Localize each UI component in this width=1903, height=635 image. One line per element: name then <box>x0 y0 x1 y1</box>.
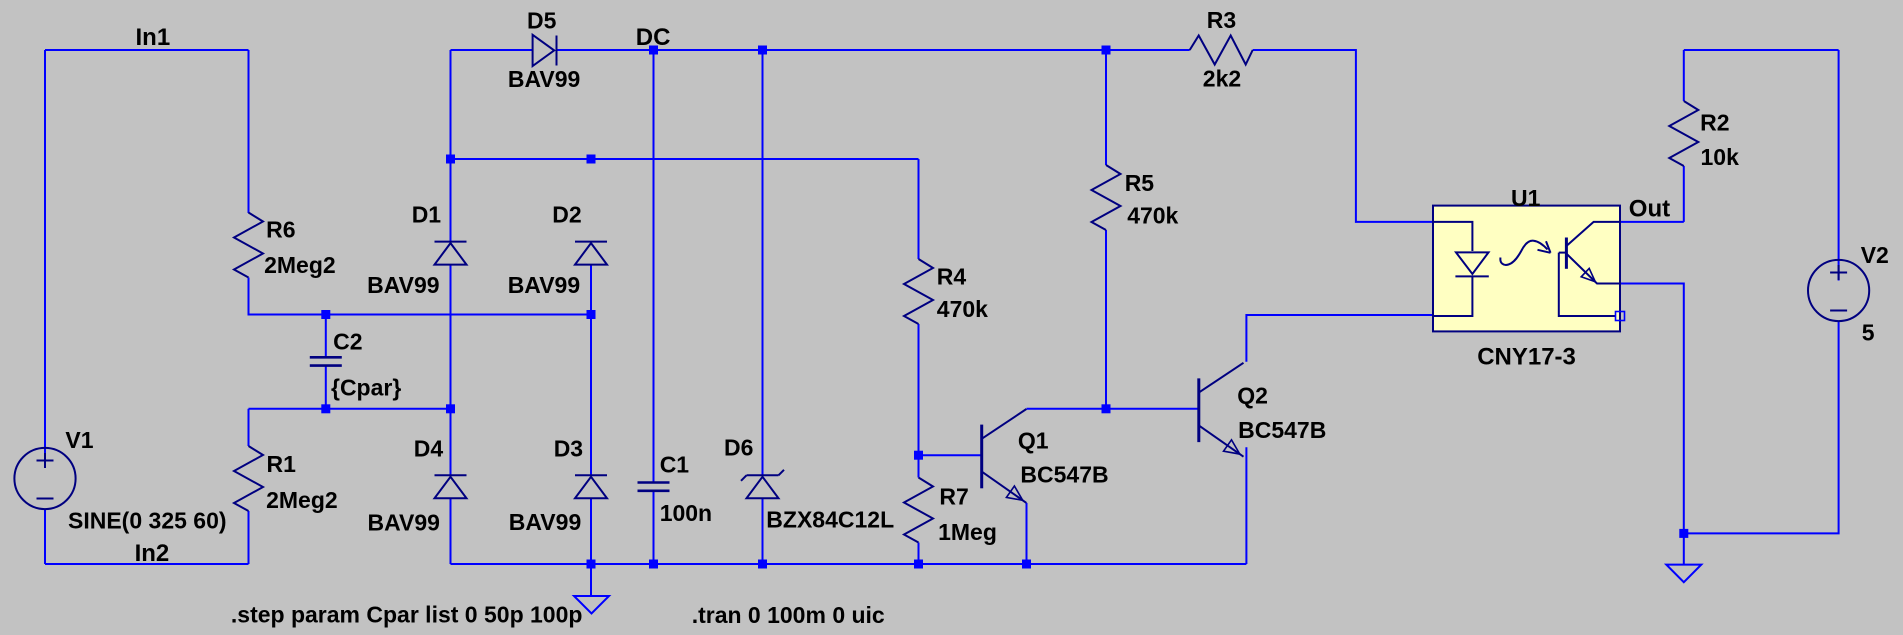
transistor Q1 symbol <box>982 409 1027 503</box>
svg-text:.tran 0 100m 0 uic: .tran 0 100m 0 uic <box>692 602 885 628</box>
svg-text:BAV99: BAV99 <box>508 272 580 298</box>
svg-text:V1: V1 <box>65 427 93 453</box>
svg-text:R7: R7 <box>939 484 968 510</box>
svg-text:R6: R6 <box>266 216 295 242</box>
U1 phototransistor <box>1559 222 1620 316</box>
wire R2 to V2 top rail <box>1684 49 1839 51</box>
junction DC at C1 <box>649 46 658 55</box>
wire D4 bottom lead <box>450 498 452 564</box>
wire D5 branch vertical <box>450 50 452 242</box>
wire Q2 collector to U1 cathode <box>1246 315 1433 362</box>
svg-text:100n: 100n <box>660 500 712 526</box>
svg-text:BC547B: BC547B <box>1020 462 1108 488</box>
svg-text:470k: 470k <box>1127 203 1178 229</box>
svg-text:1Meg: 1Meg <box>938 519 997 545</box>
svg-text:D6: D6 <box>724 435 753 461</box>
wire R1 bottom to In2 rail <box>248 511 250 564</box>
wire R2 bottom lead <box>1683 166 1685 222</box>
svg-text:SINE(0 325 60): SINE(0 325 60) <box>68 508 227 534</box>
wire Q2 emitter down <box>1245 447 1247 564</box>
wire In2 bottom rail <box>45 563 249 565</box>
wire C2 top lead <box>325 315 327 358</box>
svg-text:BAV99: BAV99 <box>509 509 581 535</box>
diode D3 body <box>575 475 607 498</box>
wire R7 bottom lead <box>918 543 920 565</box>
junction C2 bottom <box>321 404 330 413</box>
wire R3 right to U1 <box>1253 50 1433 222</box>
wire DC top rail <box>557 49 1190 51</box>
svg-text:In2: In2 <box>135 540 170 567</box>
wire R2 top lead <box>1683 50 1685 101</box>
svg-text:D4: D4 <box>414 435 444 461</box>
svg-text:BC547B: BC547B <box>1238 417 1326 443</box>
junction rail at C1 <box>649 560 658 569</box>
svg-text:BAV99: BAV99 <box>367 272 439 298</box>
junction DC at R5 <box>1102 46 1111 55</box>
svg-text:C2: C2 <box>333 329 362 355</box>
diode D1 body <box>435 242 467 265</box>
resistor R6 body <box>234 213 263 278</box>
junction rail at R7 <box>914 560 923 569</box>
svg-text:Q1: Q1 <box>1018 428 1049 454</box>
wire R5 bottom lead <box>1105 230 1107 409</box>
diode D5 body <box>533 35 557 66</box>
diode D4 body <box>435 475 467 498</box>
svg-text:DC: DC <box>636 24 671 51</box>
wire R4 top lead <box>918 159 920 259</box>
wire R7 top lead <box>918 455 920 477</box>
svg-text:D1: D1 <box>412 201 442 227</box>
wire D2 cathode to D3 <box>590 265 592 476</box>
resistor R3 body <box>1190 36 1253 65</box>
wire D6 top lead <box>762 50 764 475</box>
svg-text:{Cpar}: {Cpar} <box>331 374 401 400</box>
svg-text:C1: C1 <box>660 451 690 477</box>
svg-text:Q2: Q2 <box>1237 382 1268 408</box>
svg-text:D5: D5 <box>527 7 557 33</box>
svg-text:BAV99: BAV99 <box>368 510 440 536</box>
voltage source V1 symbol <box>14 448 75 509</box>
junction rail at Q1 emitter <box>1022 560 1031 569</box>
junction C2 top <box>321 310 330 319</box>
svg-text:2k2: 2k2 <box>1203 66 1241 92</box>
wire ground1 stem <box>590 564 592 596</box>
wire Q1 emitter down <box>1026 503 1028 564</box>
junction D4 bridge mid <box>446 404 455 413</box>
resistor R1 body <box>234 446 263 511</box>
svg-text:.step param Cpar list 0 50p 10: .step param Cpar list 0 50p 100p <box>231 602 583 628</box>
junction DC at D6 <box>758 46 767 55</box>
U1 LED <box>1433 222 1489 316</box>
junction R5-Q1-Q2 <box>1102 404 1111 413</box>
U1 base pin marker <box>1616 312 1625 321</box>
svg-text:R5: R5 <box>1125 170 1155 196</box>
wire V2 top lead <box>1838 50 1840 281</box>
wire AC1 rail <box>249 408 451 410</box>
wire U1 collector to Out <box>1620 221 1684 223</box>
wire U1 emitter down <box>1620 284 1684 534</box>
svg-text:D3: D3 <box>554 435 583 461</box>
ground symbol 2 <box>1666 565 1701 583</box>
svg-text:R3: R3 <box>1207 7 1236 33</box>
wire R1 top lead <box>248 409 250 446</box>
diode D6 body <box>741 470 784 499</box>
svg-text:R1: R1 <box>267 451 297 477</box>
svg-text:5: 5 <box>1862 320 1875 346</box>
svg-text:10k: 10k <box>1701 144 1740 170</box>
svg-text:R2: R2 <box>1700 110 1729 136</box>
wire R6 bottom to AC2 rail <box>249 278 592 315</box>
wire D3 bottom lead <box>590 498 592 564</box>
svg-text:V2: V2 <box>1861 242 1889 268</box>
capacitor C2 body <box>310 357 342 365</box>
junction D1 top <box>446 155 455 164</box>
junction D2 top <box>587 155 596 164</box>
wire ground bottom rail <box>451 563 1247 565</box>
optocoupler U1 body <box>1433 206 1620 332</box>
svg-text:D2: D2 <box>552 201 581 227</box>
capacitor C1 body <box>638 483 670 491</box>
wire D6 bottom lead <box>762 499 764 565</box>
resistor R5 body <box>1092 165 1121 230</box>
resistor R2 body <box>1669 101 1698 166</box>
diode D2 body <box>575 242 607 265</box>
wire ground2 stem <box>1683 533 1685 564</box>
svg-text:CNY17-3: CNY17-3 <box>1477 344 1576 371</box>
wire V1 bottom lead <box>44 509 46 564</box>
resistor R4 body <box>904 259 933 324</box>
wire V1 top lead <box>44 50 46 468</box>
svg-text:470k: 470k <box>937 296 988 322</box>
wire Q1 collector to Q2 base <box>1027 408 1199 410</box>
wire C1 top lead <box>653 50 655 482</box>
wire R5 top lead <box>1105 50 1107 165</box>
svg-text:BAV99: BAV99 <box>508 66 580 92</box>
ground symbol 1 <box>574 596 609 614</box>
wire Q1 base wire <box>919 454 982 456</box>
wire D1 cathode to D4 <box>450 265 452 476</box>
junction rail at D3 <box>587 560 596 569</box>
svg-text:In1: In1 <box>136 24 171 51</box>
svg-text:2Meg2: 2Meg2 <box>266 487 338 513</box>
wire C1 bottom lead <box>653 491 655 564</box>
junction ground2 node <box>1679 529 1688 538</box>
svg-text:R4: R4 <box>937 264 967 290</box>
wire R4 bottom lead <box>918 324 920 455</box>
wire rail D1-D2-R4 <box>451 158 919 160</box>
transistor Q2 symbol <box>1199 363 1244 457</box>
wire In1 top rail <box>45 49 249 51</box>
svg-text:Out: Out <box>1629 195 1670 222</box>
wire V2 bottom to ground node <box>1684 321 1839 533</box>
voltage source V2 symbol <box>1808 260 1869 321</box>
svg-text:BZX84C12L: BZX84C12L <box>766 507 894 533</box>
junction D2 bridge mid <box>587 310 596 319</box>
wire C2 bottom lead <box>325 367 327 409</box>
junction R4-R7-Q1 base <box>914 451 923 460</box>
svg-text:U1: U1 <box>1511 185 1541 211</box>
resistor R7 body <box>904 478 933 543</box>
wire R6 top lead <box>248 50 250 213</box>
svg-text:2Meg2: 2Meg2 <box>264 252 336 278</box>
U1 light arrow <box>1500 241 1550 265</box>
junction rail at D6 <box>758 560 767 569</box>
wire D5 anode <box>451 49 533 51</box>
